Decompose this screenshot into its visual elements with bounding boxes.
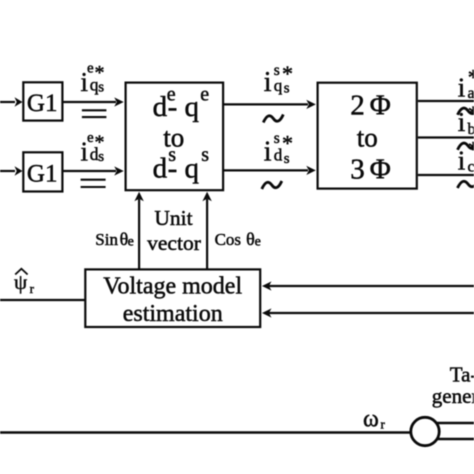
- svg-text:c: c: [468, 159, 474, 176]
- svg-text:i: i: [458, 72, 466, 102]
- svg-text:- q: - q: [168, 91, 199, 123]
- wire: speed signal omega_r to tacho generator: [0, 431, 411, 433]
- svg-text:b: b: [468, 121, 474, 138]
- svg-text:d: d: [153, 91, 168, 123]
- wire: phase a output: [418, 100, 474, 102]
- AC symbol under i_b*: [458, 142, 474, 150]
- DC symbol (double bar) under i_ds^e*: [81, 180, 106, 187]
- block voltage model estimation: [85, 269, 260, 327]
- svg-text:r: r: [30, 281, 35, 296]
- label i_a*: [458, 65, 474, 103]
- wire: G1 bottom to d-q block: [64, 166, 124, 175]
- svg-text:d: d: [153, 152, 168, 184]
- svg-text:r: r: [381, 417, 386, 432]
- svg-text:estimation: estimation: [123, 301, 223, 327]
- wire: rotor flux output psi_r: [0, 299, 85, 301]
- tacho generator circle: [411, 417, 439, 445]
- wire: input arrow into G1 bottom: [0, 166, 23, 175]
- AC symbol under i_c*: [458, 180, 474, 188]
- label i_c*: [458, 137, 474, 176]
- svg-text:s: s: [201, 144, 209, 166]
- svg-text:Cos: Cos: [215, 230, 241, 249]
- svg-text:e: e: [255, 235, 261, 250]
- svg-text:q: q: [274, 76, 283, 95]
- svg-text:a: a: [468, 85, 474, 102]
- wire: voltage feedback into voltage model (top): [262, 281, 474, 290]
- wire: current feedback into voltage model (bottom): [262, 308, 474, 317]
- svg-text:G1: G1: [27, 90, 58, 117]
- wire: input arrow into G1 top: [0, 97, 23, 106]
- label Cos theta_e: [215, 229, 261, 250]
- block G1 bottom: [23, 152, 62, 191]
- svg-text:Φ: Φ: [370, 154, 391, 186]
- wire: tacho generator output bottom: [437, 438, 474, 441]
- svg-text:i: i: [458, 146, 466, 176]
- label Sin theta_e: [95, 229, 134, 250]
- svg-text:vector: vector: [147, 231, 201, 255]
- svg-text:- q: - q: [168, 152, 199, 184]
- block d-q transform (d^e-q^e to d^s-q^s): [126, 83, 224, 191]
- svg-text:i: i: [458, 107, 466, 137]
- svg-text:s: s: [284, 151, 290, 167]
- svg-text:Unit: Unit: [154, 206, 192, 230]
- svg-text:Voltage model: Voltage model: [103, 274, 242, 300]
- svg-text:d: d: [274, 145, 283, 164]
- AC symbol under i_a*: [458, 107, 474, 115]
- svg-text:generator: generator: [432, 384, 474, 408]
- svg-text:e: e: [200, 83, 209, 105]
- label Tacho generator (cut off at right edge): [432, 363, 474, 408]
- label i_b*: [458, 101, 474, 138]
- block G1 top: [23, 82, 62, 120]
- svg-text:G1: G1: [27, 161, 58, 188]
- wire: phase c output: [418, 174, 474, 176]
- svg-text:e: e: [128, 235, 134, 250]
- wire: d-q d-output to 2ph block: [224, 166, 316, 175]
- label i_qs^s*: [264, 61, 293, 98]
- svg-text:3: 3: [350, 154, 365, 186]
- label i_ds^s*: [264, 130, 293, 167]
- wire: phase b output: [418, 136, 474, 138]
- svg-text:to: to: [357, 123, 378, 153]
- wire: d-q q-output to 2ph block: [224, 100, 316, 109]
- label i_qs^e*: [81, 60, 105, 97]
- svg-text:Φ: Φ: [370, 90, 391, 122]
- svg-text:Sin: Sin: [95, 230, 118, 249]
- AC symbol (tilde) under i_qs^s*: [263, 115, 283, 123]
- svg-text:s: s: [284, 81, 290, 97]
- wire: tacho generator output top: [437, 422, 474, 425]
- wire: sin theta arrow (voltage model up to d-q block): [134, 192, 143, 269]
- svg-text:ω: ω: [363, 407, 379, 433]
- svg-text:s: s: [98, 149, 104, 165]
- svg-text:i: i: [264, 67, 272, 98]
- label psi_r with hat: [14, 269, 35, 296]
- svg-text:s: s: [98, 80, 104, 96]
- DC symbol (double bar) under i_qs^e*: [82, 110, 107, 117]
- svg-text:i: i: [264, 136, 272, 167]
- wire: cos theta arrow (voltage model up to d-q block): [202, 192, 211, 269]
- label i_ds^e*: [81, 130, 105, 167]
- AC symbol (tilde) under i_ds^s*: [262, 181, 282, 189]
- svg-text:θ: θ: [246, 229, 255, 249]
- label omega_r: [363, 407, 386, 433]
- wire: G1 top to d-q block: [64, 97, 124, 106]
- svg-text:2: 2: [350, 90, 365, 122]
- block 2-phase to 3-phase: [318, 83, 417, 189]
- label Unit vector: [147, 206, 201, 255]
